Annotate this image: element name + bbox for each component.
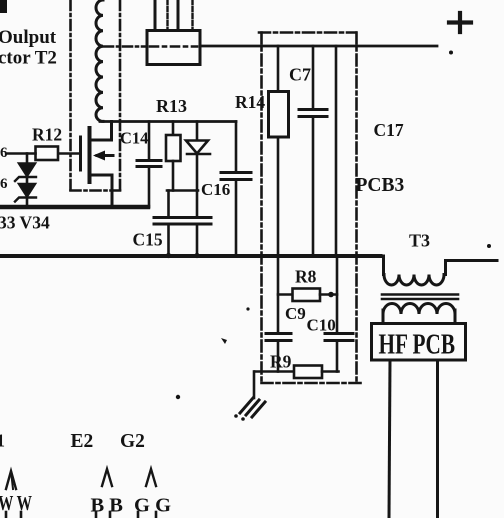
svg-text:C7: C7 (289, 65, 311, 85)
resistor R8 (278, 256, 337, 333)
svg-text:C16: C16 (201, 180, 230, 199)
pin 2 above block (166, 0, 168, 31)
corner artifact top-left (0, 0, 7, 13)
svg-text:HF PCB: HF PCB (379, 329, 456, 361)
svg-text:C14: C14 (120, 129, 148, 148)
wire left pin to R12 (8, 152, 36, 155)
PCB3 dashed box top edge (259, 31, 356, 34)
pin 4 above block (191, 0, 193, 31)
svg-text:C15: C15 (133, 230, 163, 250)
transformer T2 dashed box left edge (69, 0, 72, 191)
wire main bottom bus (0, 254, 381, 258)
wire coil bottom to R13 section (100, 120, 236, 123)
capacitor C7 (299, 46, 327, 256)
pin 1 above block (154, 0, 157, 31)
transistor MOSFET (81, 122, 114, 207)
zener diode V34 (15, 184, 36, 202)
inductor winding T2 (96, 0, 103, 121)
transistor MOSFET gate wire (58, 152, 80, 155)
pin 3 above block (177, 0, 180, 31)
wire ground bus left (0, 205, 148, 209)
speck near plus (449, 51, 453, 55)
svg-text:E2: E2 (71, 431, 94, 452)
svg-text:1: 1 (0, 431, 5, 451)
svg-text:6: 6 (0, 176, 8, 192)
HF PCB box (372, 324, 466, 361)
svg-text:R14: R14 (235, 92, 265, 112)
capacitor (right of C15) (185, 191, 211, 259)
svg-text:R12: R12 (32, 125, 62, 145)
PCB3 dashed box bottom edge (262, 382, 362, 385)
transformer T3 primary (384, 256, 498, 285)
resistor R9 (255, 366, 339, 379)
wire to ground (253, 372, 256, 399)
speck lower left (176, 395, 180, 399)
transformer T2 dashed box bottom edge (71, 189, 121, 192)
wire dash-dot through block (150, 45, 197, 48)
svg-text:ctor T2: ctor T2 (0, 48, 57, 69)
capacitor C15 (154, 191, 183, 259)
svg-text:PCB3: PCB3 (356, 175, 405, 196)
arrow above G wires (146, 469, 156, 486)
svg-text:33 V34: 33 V34 (0, 213, 50, 233)
wire branch C17 (335, 46, 338, 256)
svg-text:C17: C17 (374, 120, 404, 140)
wire mid node (167, 189, 198, 192)
zener diode V33 (15, 164, 36, 182)
svg-text:R13: R13 (156, 96, 187, 116)
svg-text:C10: C10 (307, 316, 336, 335)
resistor R12 (36, 147, 59, 161)
svg-text:G2: G2 (120, 431, 145, 452)
transformer T3 core (382, 293, 458, 296)
svg-text:C9: C9 (285, 304, 306, 323)
plus terminal (449, 13, 471, 32)
diode VD (parallel with R13) (186, 122, 210, 191)
svg-text:6: 6 (0, 145, 8, 161)
capacitor C16 (221, 122, 251, 256)
wire top bus to plus (200, 45, 437, 48)
wire zener branch (26, 154, 29, 207)
speck right of T3 (487, 244, 491, 248)
capacitor C10 (325, 256, 353, 372)
wire stubs at bottom edge (5, 512, 8, 518)
speck mid page (246, 307, 249, 310)
svg-text:R9: R9 (270, 352, 292, 372)
resistor R13 (166, 122, 181, 191)
wire HF PCB output right (436, 360, 439, 518)
transformer T2 dashed box right edge (119, 0, 122, 191)
transformer T3 secondary (383, 304, 455, 324)
wire HF PCB output left (389, 360, 390, 518)
speck below bus (221, 338, 227, 344)
svg-text:T3: T3 (409, 231, 430, 251)
arrow above W wires (6, 471, 16, 489)
capacitor C14 (137, 122, 161, 208)
PCB3 dashed box right edge (355, 33, 358, 384)
svg-text:R8: R8 (295, 267, 317, 287)
arrow above B wires (102, 469, 112, 486)
ground symbol (240, 398, 265, 417)
connector block (147, 31, 200, 65)
svg-text:G G: G G (134, 495, 171, 517)
capacitor C9 (266, 334, 291, 372)
PCB3 dashed box left edge (260, 33, 263, 384)
svg-text:Oulput: Oulput (0, 27, 57, 48)
wire dash-dot tap from coil to block (104, 45, 147, 48)
resistor R14 (269, 46, 289, 256)
